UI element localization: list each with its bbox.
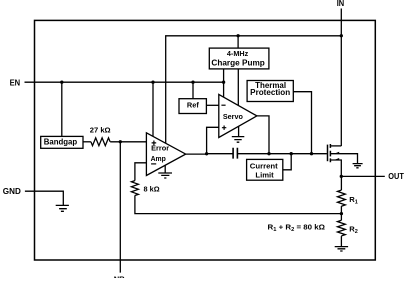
node current limit junction [290, 152, 293, 155]
resistor 27k zigzag [91, 138, 110, 146]
current limit box [247, 159, 283, 180]
wire Q1 drain stub to IN [330, 145, 341, 147]
svg-text:GND: GND [3, 187, 21, 196]
resistor 8k zigzag [131, 181, 138, 196]
node EN-ref junction [191, 81, 194, 84]
svg-text:EN: EN [10, 77, 21, 87]
servo plus input mark [222, 126, 226, 130]
wire error amp output up to servo + input [207, 127, 219, 154]
wire charge pump left pin down to servo [223, 69, 225, 97]
wire Ref output to servo - input [206, 104, 218, 106]
wire OUT pin [341, 175, 385, 177]
svg-text:Protection: Protection [250, 88, 290, 97]
resistor R2 zigzag [338, 220, 346, 236]
wire R1 to R2 [340, 206, 342, 220]
capacitor series in gate line [233, 148, 237, 159]
ground symbol at GND pin [56, 205, 69, 211]
svg-text:R1 + R2 = 80 kΩ: R1 + R2 = 80 kΩ [268, 222, 326, 232]
svg-text:R1: R1 [349, 195, 358, 205]
wire thermal protection to gate line [293, 92, 311, 154]
node thermal protection junction [310, 152, 313, 155]
wire 27k to error amp + input [110, 141, 146, 143]
wire GND pin [25, 191, 63, 205]
ground under error amp [158, 165, 172, 178]
svg-text:OUT: OUT [388, 172, 404, 181]
wire 8k bottom to feedback line [135, 195, 342, 213]
bandgap box [41, 136, 83, 148]
node OUT junction [340, 175, 343, 178]
wire IN vertical into chip [340, 9, 342, 147]
transistor Q1 body arrow [334, 152, 339, 154]
wire servo output to gate line [257, 116, 269, 154]
wire bandgap output [83, 141, 91, 143]
wire EN down to error amp [152, 82, 154, 136]
charge pump box U3 [209, 48, 269, 69]
wire error amp - input [135, 163, 147, 181]
node error amp output junction [205, 152, 208, 155]
node NR junction [119, 140, 122, 143]
Ref box [179, 99, 206, 114]
wire NR pin vertical [119, 142, 121, 273]
transistor Q1 source arrow [334, 158, 339, 160]
svg-text:R2: R2 [349, 225, 358, 235]
transistor Q1 channel segments [329, 144, 331, 162]
transistor Q1 pass FET gate bar [327, 145, 329, 162]
servo minus input mark [221, 104, 225, 106]
pin NR label (clipped at bottom) [114, 274, 125, 282]
svg-text:4-MHz: 4-MHz [227, 49, 249, 58]
svg-text:8 kΩ: 8 kΩ [144, 185, 160, 194]
svg-text:Servo: Servo [223, 112, 243, 121]
svg-text:Bandgap: Bandgap [44, 138, 78, 147]
wire current limit to gate line [283, 154, 291, 170]
error amp plus input mark [152, 141, 157, 146]
wire Q1 body stub to ground [330, 154, 357, 164]
outer IC boundary box [35, 20, 376, 260]
svg-text:Limit: Limit [255, 170, 274, 179]
ground at Q1 body [353, 164, 363, 168]
node EN-chargepump junction [222, 81, 225, 84]
op-amp error amp U1 [146, 133, 185, 176]
wire OUT node down to R1 [340, 176, 342, 190]
svg-text:Error: Error [151, 145, 169, 152]
resistor R1 zigzag [338, 190, 346, 206]
wire EN to bandgap top [61, 82, 63, 136]
ground under R2 [335, 247, 348, 251]
node feedback junction [340, 212, 343, 215]
svg-text:IN: IN [337, 0, 345, 8]
ground under servo [232, 126, 245, 142]
wire Q1 source stub to OUT node [330, 160, 341, 176]
svg-text:27 kΩ: 27 kΩ [90, 125, 111, 134]
wire charge pump top pin [237, 36, 239, 48]
node EN-bandgap junction [60, 81, 63, 84]
wire EN horizontal line [25, 81, 224, 83]
error amp minus input mark [151, 163, 156, 165]
node rail-chargepump junction [236, 34, 239, 37]
node servo output junction [267, 152, 270, 155]
wire error amp output / gate line [186, 153, 327, 155]
thermal protection box [247, 81, 293, 102]
wire R2 to ground [340, 236, 342, 246]
op-amp servo [219, 94, 257, 137]
wire charge pump right pin down to servo [237, 69, 239, 105]
svg-text:Charge Pump: Charge Pump [211, 59, 265, 68]
svg-text:NR: NR [114, 274, 125, 282]
wire EN down to Ref box [192, 82, 194, 99]
node rail-IN junction [340, 34, 343, 37]
wire charge-pump supply rail [166, 36, 342, 143]
node EN-erroramp junction [151, 81, 154, 84]
svg-text:Amp: Amp [151, 154, 167, 163]
svg-text:Current: Current [250, 162, 278, 171]
svg-text:Ref: Ref [187, 101, 199, 110]
